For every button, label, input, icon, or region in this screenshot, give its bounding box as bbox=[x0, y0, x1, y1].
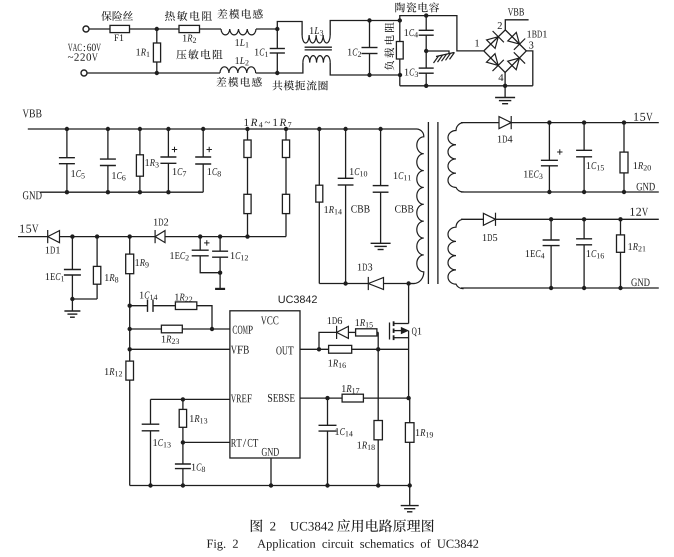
caption UC3842 (latin) bbox=[290, 522, 333, 531]
junction 1R8 top bbox=[95, 234, 99, 238]
wire 1EC4 leads bbox=[550, 219, 552, 240]
junction 1EC1 top bbox=[70, 234, 74, 238]
junction GND rail x=107.9 bbox=[106, 190, 110, 194]
wire 1C13 to rail bbox=[150, 431, 152, 486]
inductor 1L2 differential-mode bbox=[220, 67, 256, 73]
pin label RT/CT bbox=[231, 439, 258, 447]
wire VFB line bbox=[130, 348, 230, 350]
wire 1C1 lower lead bbox=[276, 53, 278, 73]
capacitor 1EC4 electrolytic bbox=[543, 240, 560, 246]
wire ceramic-cap top line bbox=[400, 16, 484, 51]
capacitor 1EC1 electrolytic bbox=[64, 270, 81, 276]
label 1D2 bbox=[154, 219, 168, 226]
junction rail/1C8b bbox=[181, 483, 185, 487]
wire 1C4 top lead bbox=[425, 16, 427, 31]
label 差模电感 bottom bbox=[216, 77, 261, 87]
label 1R3 bbox=[145, 159, 158, 167]
label GND (12V) bbox=[631, 279, 649, 287]
junction VBB rail x=203.2 bbox=[201, 127, 205, 131]
choke core lines bbox=[305, 47, 332, 50]
label 1R13 bbox=[190, 415, 207, 423]
resistor 1R17 bbox=[342, 394, 363, 402]
wire 1D1 to 1D2 bbox=[60, 236, 156, 238]
wire 1R2 to 1L1 bbox=[200, 28, 222, 30]
wire 1C7 leads bbox=[167, 129, 169, 157]
pin label COMP bbox=[233, 326, 253, 334]
wire 1R20 top lead bbox=[623, 123, 625, 153]
label 1C12 bbox=[231, 252, 248, 260]
inductor 1L1 differential-mode bbox=[221, 29, 256, 35]
wire 1C8b to rail bbox=[182, 469, 184, 486]
capacitor 1C2 bbox=[362, 48, 378, 54]
wire chain2 leads bbox=[285, 129, 287, 140]
label 1R22 bbox=[175, 294, 192, 302]
wire VREF line bbox=[151, 398, 230, 400]
junction rail/1C13 bbox=[148, 483, 152, 487]
resistor 1R5 (chain1 lower) bbox=[244, 194, 251, 213]
wire 1C5 lower bbox=[66, 164, 68, 193]
junction 1C12 top bbox=[218, 234, 222, 238]
capacitor 1C14 (sense filter) bbox=[319, 425, 337, 431]
label 共模扼流圈 (common-mode choke) bbox=[272, 80, 327, 90]
wire 15V secondary return line bbox=[461, 191, 659, 193]
wire load resistor bottom lead bbox=[399, 59, 401, 86]
wire 1C10 bottom lead bbox=[345, 185, 347, 284]
capacitor 1C6 bbox=[100, 159, 116, 165]
junction VBB rail x=247.5 bbox=[245, 127, 249, 131]
junction VBB rail x=286 bbox=[284, 127, 288, 131]
wire left column 1R9 to 1R12 bbox=[129, 274, 131, 361]
wire 1R3 top lead bbox=[139, 129, 141, 155]
wire 1C16 leads bbox=[583, 219, 585, 239]
wire AC bottom line: terminal to 1L2 bbox=[87, 72, 220, 74]
label 1C5 bbox=[71, 170, 84, 178]
label 1EC3 bbox=[524, 171, 543, 179]
resistor load (负载电阻) bbox=[396, 42, 403, 60]
label 1R18 bbox=[358, 442, 375, 450]
wire 1R21 bottom lead bbox=[620, 252, 622, 288]
label 1D3 bbox=[358, 264, 372, 271]
fuse F1 bbox=[110, 25, 130, 32]
junction 1C16 top bbox=[582, 217, 586, 221]
transformer core bbox=[428, 122, 438, 284]
resistor 1R16 bbox=[329, 345, 352, 353]
capacitor 1C1 bbox=[270, 49, 285, 54]
junction 1R16/vertical bbox=[376, 347, 380, 351]
junction 1R13 top bbox=[181, 397, 185, 401]
pin label VREF bbox=[231, 394, 252, 402]
label 1C15 bbox=[587, 162, 604, 170]
junction 1EC4 bottom bbox=[549, 286, 553, 290]
label 1R2 bbox=[183, 35, 196, 43]
junction VBB rail x=107.9 bbox=[106, 127, 110, 131]
wire load resistor top lead bbox=[399, 21, 401, 42]
transformer primary winding bbox=[409, 129, 424, 284]
label 1R20 bbox=[634, 162, 651, 170]
resistor 1R19 bbox=[405, 423, 414, 443]
ground bar below 1C12 bbox=[215, 288, 225, 290]
resistor 1R15 bbox=[356, 329, 377, 336]
ground at rail end bbox=[401, 506, 419, 512]
bridge pin 1 bbox=[475, 40, 479, 47]
ground below 1C11 bbox=[371, 243, 391, 249]
capacitor 1C15 bbox=[576, 150, 592, 157]
junction 1C2 bottom bbox=[367, 73, 371, 77]
capacitor 1C4 bbox=[419, 30, 434, 35]
wire 1C2 top lead bbox=[369, 21, 371, 48]
diode 1D4 bbox=[499, 116, 511, 129]
label 1R8 bbox=[105, 274, 118, 282]
label 1L1 bbox=[235, 39, 248, 47]
wire 1C7 lower bbox=[167, 163, 169, 192]
wire 1C8 lower bbox=[202, 164, 204, 192]
wire 1R22 to COMP via bbox=[197, 306, 212, 329]
wire chain2 mid bbox=[285, 158, 287, 195]
wire 1C14b top lead bbox=[327, 398, 329, 425]
transformer secondary winding 15V bbox=[448, 123, 463, 192]
junction GND rail x=168.4 bbox=[166, 190, 170, 194]
wire 1R15 output drop bbox=[377, 331, 379, 333]
wire 1EC4 lower bbox=[550, 246, 552, 288]
label GND rail bbox=[23, 191, 42, 199]
junction 1R22/COMP bbox=[210, 327, 214, 331]
label 1C4 bbox=[405, 29, 418, 37]
resistor 1R22 bbox=[175, 302, 196, 310]
label 1R23 bbox=[162, 336, 179, 344]
resistor 1R18 bbox=[374, 421, 382, 440]
wire 1D6 branch vertical bbox=[319, 332, 337, 349]
wire 1R19 to rail bbox=[409, 442, 411, 485]
wire 15V secondary top line bbox=[461, 122, 499, 124]
wire OUT line bbox=[300, 348, 329, 350]
junction rail/1R19 bbox=[408, 483, 412, 487]
wire bottom return line to bridge bbox=[400, 85, 533, 87]
label 1D5 bbox=[483, 234, 497, 241]
wire RT/CT line bbox=[183, 441, 230, 443]
label 1C13 bbox=[153, 439, 170, 447]
wire 1R18 to rail bbox=[377, 440, 379, 486]
junction VBB rail x=319.3 bbox=[317, 127, 321, 131]
label 1C1 bbox=[255, 49, 268, 57]
junction 1EC4 top bbox=[549, 217, 553, 221]
wire fuse to node A bbox=[130, 28, 180, 30]
junction 1R20 top bbox=[622, 120, 626, 124]
label 1C7 bbox=[173, 168, 186, 176]
wire 1R9 top lead bbox=[129, 237, 131, 255]
pin label GND bbox=[262, 448, 279, 456]
wire 1C15 leads bbox=[583, 123, 585, 151]
wire COMP line bbox=[130, 328, 230, 330]
junction 1EC2 top bbox=[198, 234, 202, 238]
label 1L3 bbox=[310, 27, 323, 35]
wire 1C15 lower bbox=[583, 157, 585, 192]
label CBB (1C11) bbox=[395, 205, 413, 212]
caption Fig.2 english bbox=[207, 539, 478, 550]
capacitor 1EC3 electrolytic bbox=[541, 160, 558, 166]
junction node A top of 1R1 bbox=[155, 27, 159, 31]
bridge diode 1BD1 top-right bbox=[508, 32, 525, 49]
junction 1EC1/1R8 bottom bbox=[70, 297, 74, 301]
wire 1C11 top lead bbox=[380, 129, 382, 186]
chassis ground (hatched) bbox=[434, 52, 455, 63]
junction load resistor top bbox=[398, 18, 402, 22]
label 1D1 bbox=[46, 247, 60, 254]
junction 1R20 bottom bbox=[622, 190, 626, 194]
label F1 bbox=[114, 34, 123, 41]
wire 1C16 lower bbox=[583, 245, 585, 288]
wire 1C10 top lead bbox=[345, 129, 347, 178]
label 1R4~1R7 bbox=[244, 119, 291, 128]
label 1C16 bbox=[587, 250, 604, 258]
wire 1D4 to 15V rail end bbox=[511, 122, 659, 124]
wire 1R8 bottom lead bbox=[96, 284, 98, 299]
resistor 1R6 (chain2 upper) bbox=[282, 140, 289, 158]
junction rail/GND pin bbox=[269, 483, 273, 487]
junction GND rail x=66.9 bbox=[65, 190, 69, 194]
junction 1C4 top bbox=[424, 13, 428, 17]
label 1C3 bbox=[405, 69, 418, 77]
plus sign 1C7 bbox=[172, 147, 177, 152]
label ~220V bbox=[68, 53, 98, 60]
wire 12V secondary return line bbox=[461, 287, 659, 289]
junction load resistor bottom / choke return bbox=[398, 73, 402, 77]
junction node4 / bottom line bbox=[503, 84, 507, 88]
resistor 1R8 bbox=[93, 266, 100, 284]
resistor 1R20 bbox=[620, 152, 628, 173]
resistor 1R7 (chain2 lower) bbox=[282, 194, 289, 213]
junction 1R1 bottom bbox=[155, 71, 159, 75]
resistor 1R13 bbox=[179, 409, 186, 427]
wire bridge node4 to ground bbox=[504, 73, 506, 98]
bridge diode 1BD1 bottom-right bbox=[508, 52, 525, 69]
label 1BD1 bbox=[527, 31, 546, 38]
label 1C11 bbox=[394, 172, 411, 180]
junction 1C1 bottom bbox=[275, 71, 279, 75]
label 压敏电阻 (varistor) bbox=[176, 49, 222, 59]
terminal AC bottom bbox=[81, 70, 87, 76]
label 1R19 bbox=[416, 429, 433, 437]
capacitor 1C5 bbox=[59, 158, 75, 164]
bridge pin 4 bbox=[499, 74, 504, 81]
plus sign 1EC3 bbox=[557, 149, 562, 154]
wire VBB rail bbox=[28, 128, 417, 130]
capacitor 1C10 CBB bbox=[338, 178, 354, 185]
wire 1R14 bottom lead bbox=[318, 202, 320, 283]
wire choke bottom-left link bbox=[277, 63, 303, 73]
capacitor 1C3 bbox=[419, 68, 434, 73]
wire rail end to ground bbox=[409, 486, 411, 506]
wire GND pin lead bbox=[270, 458, 272, 486]
label 1R1 bbox=[136, 49, 149, 57]
label 1R14 bbox=[324, 206, 341, 214]
junction chain1 bottom bbox=[245, 234, 249, 238]
wire bridge node3 to bottom line bbox=[526, 51, 533, 86]
wire 1EC3 lower bbox=[548, 166, 550, 192]
junction 1C15 top bbox=[582, 120, 586, 124]
wire 1C8b top lead bbox=[182, 442, 184, 464]
junction rail/1R18 bbox=[376, 483, 380, 487]
pin label OUT bbox=[276, 346, 293, 354]
label 1C6 bbox=[112, 172, 125, 180]
junction 1C3 bottom bbox=[424, 84, 428, 88]
wire 1D5 to 12V rail end bbox=[496, 218, 659, 220]
label 负载电阻 (load resistor, rotated) bbox=[384, 22, 394, 70]
wire 1R1 bottom lead bbox=[156, 62, 158, 73]
wire 1C5 leads bbox=[66, 129, 68, 158]
label 1C2 bbox=[348, 49, 361, 57]
wire bottom rail bbox=[130, 485, 410, 487]
label 1EC1 bbox=[46, 273, 64, 281]
wire choke bottom-right link bbox=[330, 63, 400, 75]
wire 1EC2 bottom lead bbox=[200, 256, 220, 273]
wire AC top line: terminal to fuse bbox=[89, 28, 110, 30]
label VBB (bridge output) bbox=[508, 8, 524, 15]
wire 15V aux line start bbox=[18, 236, 48, 238]
wire 1R3 bottom lead bbox=[139, 176, 141, 192]
junction 1EC3 top bbox=[547, 120, 551, 124]
resistor 1R14 bbox=[316, 185, 323, 202]
wire 1C8 leads bbox=[202, 129, 204, 157]
label 1EC4 bbox=[526, 250, 545, 258]
label 15V output bbox=[634, 113, 653, 121]
label 1R12 bbox=[105, 368, 122, 376]
wire 1C14b to rail bbox=[327, 431, 329, 485]
label 1R21 bbox=[628, 243, 645, 251]
label 1D4 bbox=[498, 136, 513, 143]
junction drain/primary bottom bbox=[406, 281, 410, 285]
capacitor 1C13 bbox=[142, 424, 160, 431]
junction 1R9 top bbox=[128, 234, 132, 238]
wire 1EC1 top lead bbox=[71, 237, 73, 270]
junction 1C1 top bbox=[275, 27, 279, 31]
wire to chassis ground bbox=[426, 51, 449, 54]
label 热敏电阻 (thermistor) bbox=[165, 11, 212, 21]
resistor 1R23 bbox=[161, 325, 182, 333]
junction 1C16 bottom bbox=[582, 286, 586, 290]
junction VBB rail x=66.9 bbox=[65, 127, 69, 131]
bridge diode 1BD1 bottom-left bbox=[487, 54, 504, 71]
diode 1D3 bbox=[368, 277, 383, 290]
wire 1D3 to drain node bbox=[384, 283, 415, 285]
capacitor 1EC2 electrolytic bbox=[192, 250, 209, 256]
label VAC:60V bbox=[68, 44, 101, 51]
junction 1R21 top bbox=[618, 217, 622, 221]
junction 1R23 line left bbox=[128, 327, 132, 331]
bridge pin 2 bbox=[498, 22, 502, 29]
wire 1C2 bottom lead bbox=[369, 54, 371, 76]
resistor 1R3 bbox=[136, 155, 143, 176]
wire chain1 leads bbox=[247, 129, 249, 140]
wire 1C11 bottom lead bbox=[380, 192, 382, 243]
label 保险丝 (fuse) bbox=[101, 11, 133, 21]
caption 应用电路原理图 (zh) bbox=[337, 519, 434, 532]
junction 1C15 bottom bbox=[582, 190, 586, 194]
bridge diode 1BD1 top-left bbox=[487, 31, 504, 48]
label UC3842 bbox=[279, 295, 317, 303]
junction SENSE/1C14b bbox=[325, 396, 329, 400]
label 1C10 bbox=[350, 168, 367, 176]
junction 1EC2/1C12 bottom bbox=[218, 271, 222, 275]
wire 1R19 top lead bbox=[409, 398, 410, 423]
capacitor 1C8 electrolytic (filter) bbox=[195, 157, 211, 164]
wire 1C4 bottom lead bbox=[425, 35, 427, 51]
capacitor 1C8 (timing) bbox=[175, 464, 191, 469]
wire 1EC3 leads bbox=[548, 123, 550, 161]
capacitor 1C14 (comp) bbox=[148, 300, 154, 312]
resistor 1R12 bbox=[126, 361, 134, 380]
choke 1L3 top winding bbox=[302, 35, 330, 43]
wire 1EC2 top lead bbox=[199, 237, 201, 251]
wire 1C6 lower bbox=[107, 166, 109, 193]
wire 12V secondary top line bbox=[461, 218, 483, 220]
junction VBB rail x=168.4 bbox=[166, 127, 170, 131]
wire 1C6 leads bbox=[107, 129, 109, 159]
wire chain1 bottom bbox=[247, 214, 249, 237]
wire 1R14 top lead bbox=[318, 129, 320, 185]
bridge pin 3 bbox=[529, 42, 533, 49]
label 1C14 (comp) bbox=[140, 292, 157, 300]
wire choke top-right link bbox=[330, 21, 400, 36]
label 1R16 bbox=[329, 360, 346, 368]
wire 1R20 bottom lead bbox=[623, 173, 625, 192]
diode 1D1 bbox=[48, 230, 60, 243]
label 15V aux bbox=[20, 225, 38, 233]
wire 1R8 bottom to 1EC1 bbox=[72, 298, 97, 300]
wire 1R13 bottom lead bbox=[182, 427, 184, 442]
junction 1C14/1R22 line left bbox=[128, 304, 132, 308]
caption "2" (latin) bbox=[270, 522, 275, 531]
junction GND rail x=139.9 bbox=[138, 190, 142, 194]
wire snubber line bbox=[319, 283, 369, 285]
wire bridge node2 to VBB stub bbox=[505, 20, 528, 30]
wire 1C12 bottom lead bbox=[219, 257, 221, 288]
junction VBB rail x=139.9 bbox=[138, 127, 142, 131]
pin label VFB bbox=[231, 346, 249, 354]
wire 1C14a left lead bbox=[130, 305, 148, 307]
wire Q1 drain to 1D3 node bbox=[408, 284, 410, 324]
junction 1C2 top bbox=[367, 18, 371, 22]
label 1L2 bbox=[235, 57, 248, 65]
label 12V output bbox=[630, 208, 648, 216]
choke 1L3 bottom winding bbox=[303, 56, 330, 63]
capacitor 1C12 bbox=[212, 251, 228, 257]
terminal AC top bbox=[83, 26, 89, 32]
label 1R17 bbox=[342, 385, 359, 393]
label 1EC2 bbox=[170, 252, 188, 260]
wire 1EC1 bottom lead bbox=[71, 275, 73, 311]
label 1D6 bbox=[328, 317, 343, 324]
junction VBB rail x=380.6 bbox=[378, 127, 382, 131]
junction rail/1C14b bbox=[325, 483, 329, 487]
wire 1C3 bottom lead bbox=[425, 73, 427, 86]
label 1C14 (sense) bbox=[335, 428, 352, 436]
ground below bridge bbox=[495, 98, 515, 104]
capacitor 1C7 electrolytic bbox=[160, 157, 176, 163]
capacitor 1C11 CBB bbox=[373, 186, 389, 193]
label 1C8 (timing) bbox=[192, 464, 205, 472]
label 差模电感 top bbox=[217, 9, 262, 19]
transformer secondary winding 12V bbox=[448, 219, 463, 288]
label 1R9 bbox=[135, 259, 148, 267]
wire 1L1 to node 1C1 top bbox=[256, 28, 277, 30]
junction 1EC3 bottom bbox=[547, 190, 551, 194]
label 陶瓷电容 (ceramic capacitor) bbox=[395, 2, 439, 12]
wire 1R21 top lead bbox=[620, 219, 622, 235]
junction VFB line left bbox=[128, 347, 132, 351]
wire 1C14a to 1R22 bbox=[153, 305, 175, 307]
wire Q1 source down bbox=[408, 331, 410, 399]
junction 1C4/1C3 midpoint bbox=[424, 49, 428, 53]
